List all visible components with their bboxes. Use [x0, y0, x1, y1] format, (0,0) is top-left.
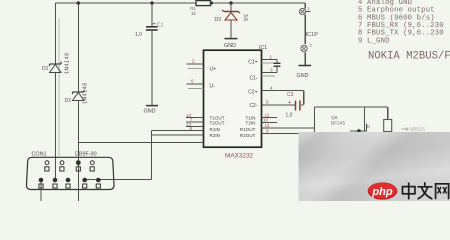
wire second row to vertical [152, 134, 204, 136]
capacitor C3 1,0 [286, 92, 300, 119]
svg-text:GND: GND [224, 43, 236, 49]
node junction rail x78 [77, 1, 81, 5]
pin 1 C1+ stub [262, 55, 278, 63]
pin 6 V- stub [187, 79, 204, 89]
svg-text:1N4148: 1N4148 [65, 52, 71, 74]
connector pad IC1P lower [301, 43, 313, 52]
nokia pinout text block [358, 0, 444, 45]
svg-text:GND: GND [144, 109, 156, 115]
svg-text:U+: U+ [210, 67, 217, 73]
diode D3 zener 3,6 (red) [215, 3, 249, 38]
wire pin 12 R1OUT to Q6 rail [262, 107, 315, 132]
watermark logo chinese text wang [436, 184, 449, 200]
wire pin 9 R2OUT to Q6 gate [262, 129, 360, 134]
capacitor C4 between pins 1 and 3 [274, 60, 281, 73]
wire left vertical from rail through D1 to CON1 pin [54, 3, 56, 180]
watermark gradient box [299, 132, 450, 201]
wire ghost parallel line beside D1 wire [58, 18, 60, 156]
wire rail corner down to IC1P pads [304, 3, 306, 65]
svg-text:1,0: 1,0 [135, 32, 142, 38]
svg-text:4: 4 [270, 85, 273, 90]
svg-text:D2: D2 [65, 98, 72, 104]
svg-text:9: 9 [266, 129, 269, 134]
pin 10 T2IN stub [262, 118, 278, 123]
svg-text:php: php [371, 186, 392, 198]
svg-text:R1OUT: R1OUT [240, 127, 256, 132]
svg-text:9 L_GND: 9 L_GND [358, 37, 390, 45]
svg-text:C1+: C1+ [248, 59, 257, 65]
transistor Q6 BF245 [331, 107, 371, 133]
svg-text:+: + [288, 100, 291, 106]
ground GND below D3 [224, 39, 238, 49]
svg-text:1k: 1k [191, 11, 197, 16]
svg-text:U-: U- [210, 84, 216, 90]
svg-text:C2-: C2- [249, 103, 257, 109]
svg-text:10: 10 [263, 118, 269, 123]
pin 3 C1- stub [262, 68, 278, 76]
svg-text:1,0: 1,0 [286, 113, 293, 119]
svg-text:R2OUT: R2OUT [240, 133, 256, 138]
wire pin 5 C2- to C3 [262, 100, 304, 105]
pin 14 T1OUT stub [186, 113, 204, 118]
svg-text:D1: D1 [42, 66, 49, 72]
connector CON1 DB9F-90 body [26, 152, 114, 190]
svg-text:3,6: 3,6 [242, 14, 248, 21]
wire pin 8 R2IN to CON1 [85, 126, 204, 180]
resistor R1 [190, 1, 213, 16]
watermark logo chinese text zhong [403, 183, 415, 200]
pin 7 T2OUT stub [186, 117, 204, 122]
node junction rail x152 (C1 tap) [150, 1, 154, 5]
watermark logo chinese text wen [418, 183, 432, 199]
svg-text:DB9F-90: DB9F-90 [75, 152, 97, 158]
wire Q6 top rail [315, 106, 388, 108]
svg-text:D3: D3 [215, 17, 222, 23]
svg-text:R1IN: R1IN [210, 127, 220, 132]
svg-text:1: 1 [270, 55, 273, 60]
svg-text:IC1: IC1 [259, 45, 267, 51]
diode D1 1N4148 [42, 52, 71, 74]
svg-text:D: D [367, 124, 371, 130]
svg-text:IC1P: IC1P [306, 32, 319, 38]
node junction rail x231 (D3 tap) [229, 1, 233, 5]
watermark logo php ellipse [368, 182, 398, 199]
pin 13 R1IN stub [186, 122, 204, 127]
ground GND below IC1P [297, 66, 312, 80]
pin 11 T1IN stub [262, 113, 278, 118]
svg-text:CON1: CON1 [32, 152, 47, 158]
svg-text:6: 6 [191, 79, 194, 84]
capacitor C1 1,0 polarized [135, 3, 164, 105]
wire vertical from rail through D2 and CON1 to bottom edge [77, 3, 79, 201]
connector pad IC1P upper [299, 6, 310, 15]
svg-text:T2OUT: T2OUT [210, 120, 225, 125]
svg-text:5: 5 [266, 100, 269, 105]
svg-text:8: 8 [190, 126, 193, 131]
ic IC1 MAX3232 body [204, 45, 268, 160]
svg-text:BF245: BF245 [331, 121, 345, 127]
resistor R2 at Q6 drain [384, 107, 392, 132]
label MBUS arrow [402, 127, 426, 133]
svg-text:C1-: C1- [249, 75, 257, 81]
wire top supply rail [56, 2, 306, 4]
connector bottom row pin circles [39, 178, 101, 188]
svg-text:MAX3232: MAX3232 [225, 153, 254, 160]
connector top row pin circles [45, 160, 94, 171]
diode D2 1N4148 [65, 82, 89, 104]
svg-text:NOKIA M2BUS/F: NOKIA M2BUS/F [368, 51, 450, 63]
svg-text:2: 2 [192, 59, 195, 64]
svg-text:3: 3 [270, 68, 273, 73]
wire pin 4 C2+ to C3 [262, 85, 304, 104]
svg-text:GND: GND [297, 73, 309, 79]
svg-text:C2+: C2+ [248, 89, 257, 95]
svg-text:T2IN: T2IN [246, 120, 256, 125]
wire below CON1 pin1 [40, 182, 42, 201]
svg-text:C3: C3 [287, 92, 294, 98]
svg-text:R2IN: R2IN [210, 133, 220, 138]
svg-text:C1: C1 [157, 23, 164, 29]
wire from D2 column to IC left edge [78, 142, 203, 144]
svg-text:Q6: Q6 [331, 115, 338, 121]
ground GND below C1 [144, 106, 159, 115]
svg-text:1N4148: 1N4148 [83, 82, 89, 104]
pin 2 V+ stub [187, 59, 204, 69]
svg-text:+: + [153, 22, 156, 28]
svg-text:12: 12 [265, 123, 271, 128]
